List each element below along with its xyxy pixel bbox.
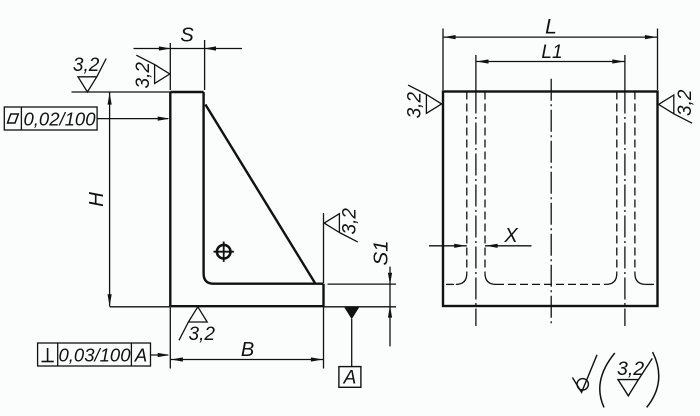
- svg-text:3,2: 3,2: [73, 55, 100, 76]
- svg-text:A: A: [343, 368, 357, 389]
- svg-text:0,03/100: 0,03/100: [58, 345, 131, 366]
- svg-text:S: S: [180, 25, 194, 47]
- svg-text:S1: S1: [370, 240, 393, 265]
- svg-text:3,2: 3,2: [405, 92, 426, 119]
- svg-text:H: H: [85, 192, 108, 207]
- svg-text:3,2: 3,2: [133, 62, 154, 89]
- svg-text:A: A: [134, 345, 147, 366]
- svg-text:X: X: [503, 225, 518, 247]
- svg-text:0,02/100: 0,02/100: [23, 109, 96, 130]
- svg-text:B: B: [241, 339, 254, 361]
- svg-text:3,2: 3,2: [340, 208, 361, 235]
- svg-text:L: L: [545, 16, 557, 39]
- svg-text:3,2: 3,2: [675, 89, 696, 116]
- svg-text:L1: L1: [541, 42, 562, 63]
- svg-text:3,2: 3,2: [189, 324, 216, 345]
